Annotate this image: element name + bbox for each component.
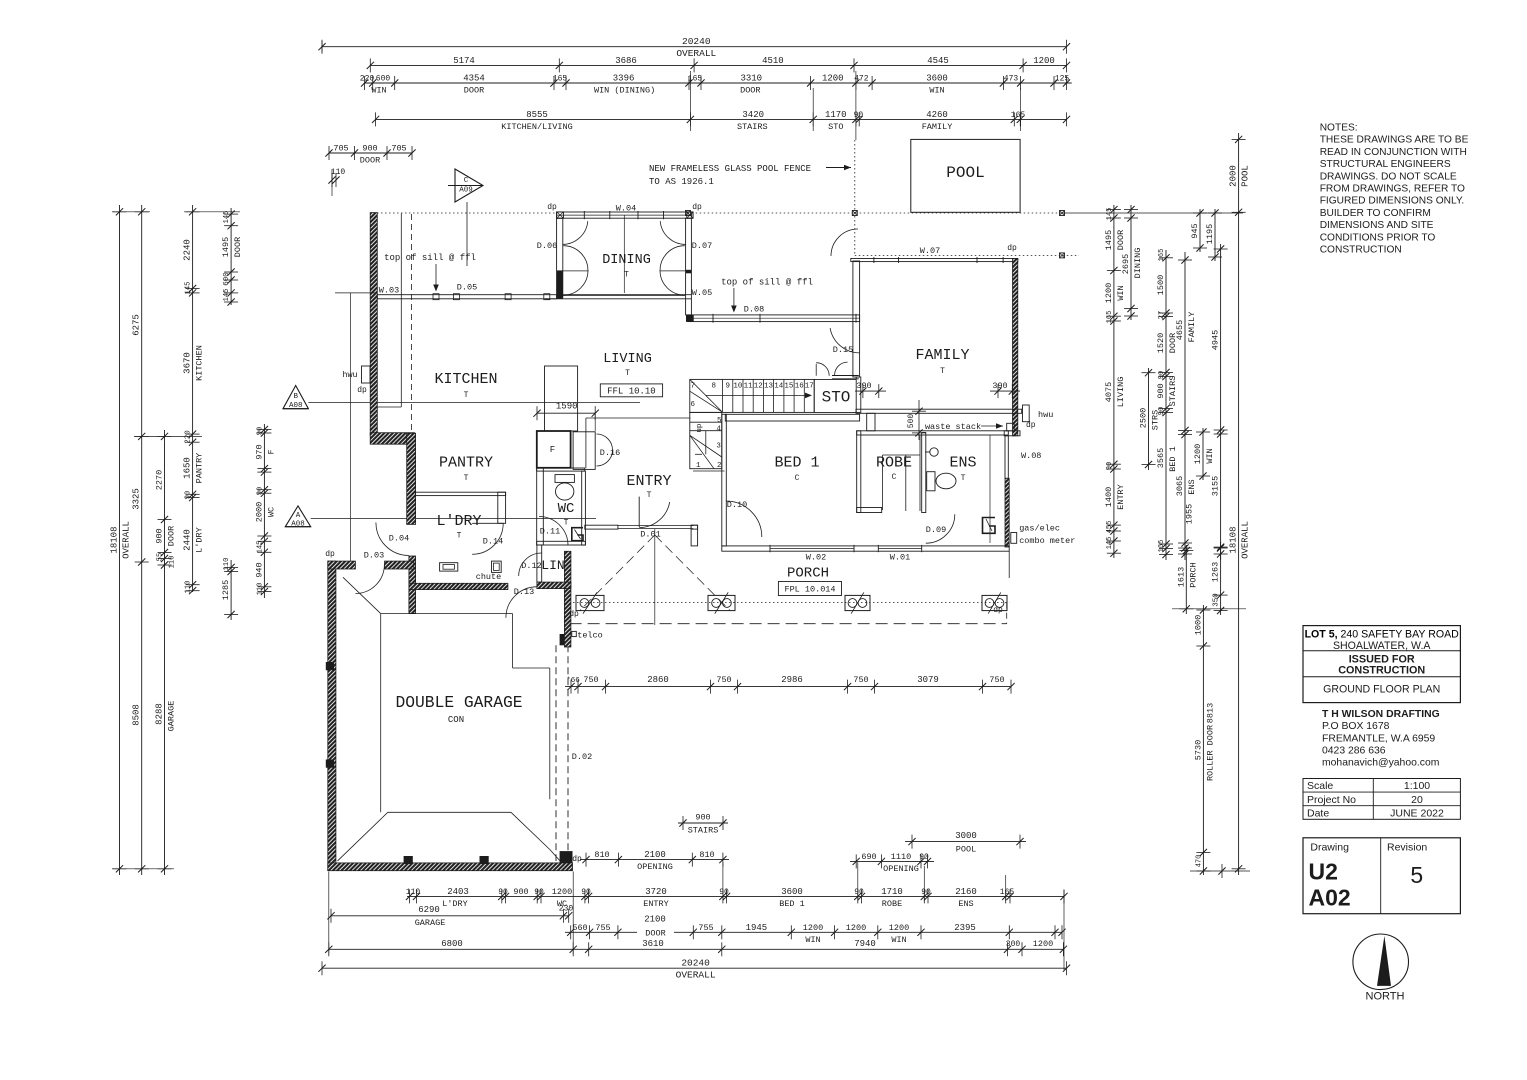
svg-text:C: C	[464, 177, 469, 185]
kitchen bench return	[377, 406, 401, 408]
svg-text:2695: 2695	[1121, 254, 1131, 274]
svg-text:90: 90	[185, 491, 193, 499]
dining corner post top-left	[557, 212, 564, 218]
svg-text:D.14: D.14	[483, 537, 503, 547]
svg-text:1170: 1170	[825, 110, 847, 120]
svg-text:2403: 2403	[447, 887, 469, 897]
svg-text:3065: 3065	[1175, 476, 1185, 496]
svg-text:1200: 1200	[822, 74, 844, 84]
svg-text:900: 900	[155, 528, 165, 543]
svg-text:4: 4	[716, 425, 721, 433]
svg-text:W.05: W.05	[692, 288, 712, 298]
svg-text:3670: 3670	[183, 352, 193, 374]
svg-text:90: 90	[498, 888, 508, 897]
telco box and label	[572, 631, 603, 641]
svg-text:PANTRY: PANTRY	[439, 455, 493, 472]
dim 390 right of family	[990, 381, 1020, 398]
kitchen bench line vertical	[400, 214, 402, 408]
left chains datum stubs	[112, 211, 150, 213]
svg-text:1590: 1590	[556, 402, 578, 412]
svg-text:WC: WC	[558, 501, 575, 517]
svg-text:5: 5	[717, 417, 722, 425]
ens fixtures: shower rose	[925, 448, 938, 456]
ldry washing trough	[440, 563, 458, 571]
svg-text:STAIRS: STAIRS	[1168, 376, 1178, 407]
svg-text:350: 350	[1213, 593, 1221, 607]
porch post 2	[708, 595, 735, 610]
svg-text:8: 8	[712, 383, 717, 391]
svg-text:D.02: D.02	[572, 752, 592, 762]
svg-text:0423 286 636: 0423 286 636	[1322, 745, 1386, 756]
door D.09 arc	[926, 514, 955, 543]
door D.07 leaf line	[660, 270, 686, 272]
svg-text:SHOALWATER, W.A: SHOALWATER, W.A	[1333, 640, 1431, 652]
wall family south / bed north y=409	[856, 409, 1022, 413]
svg-text:90: 90	[1158, 371, 1166, 379]
svg-text:T: T	[464, 474, 469, 483]
svg-text:1955: 1955	[1185, 504, 1195, 524]
svg-text:WIN: WIN	[891, 935, 906, 945]
porch post 3	[845, 595, 870, 610]
svg-text:220: 220	[185, 430, 193, 444]
door D.06 arc upper quarter	[562, 221, 587, 244]
svg-text:W.03: W.03	[379, 286, 399, 296]
left chain door 1495	[221, 208, 243, 306]
svg-text:LOT 5, 240 SAFETY BAY ROAD: LOT 5, 240 SAFETY BAY ROAD	[1305, 629, 1460, 641]
svg-text:DOOR: DOOR	[645, 928, 665, 938]
svg-text:1195: 1195	[1205, 224, 1215, 244]
roofline square node x=1062	[1060, 211, 1065, 216]
svg-text:1650: 1650	[183, 457, 193, 479]
svg-text:D.13: D.13	[514, 587, 534, 597]
svg-text:F: F	[267, 449, 276, 454]
svg-text:CONDITIONS PRIOR TO: CONDITIONS PRIOR TO	[1320, 232, 1436, 243]
svg-text:POOL: POOL	[946, 164, 984, 182]
svg-text:90: 90	[854, 888, 864, 897]
svg-text:390: 390	[992, 381, 1007, 391]
garage hip diagonal bottom-right	[511, 812, 550, 849]
label waste stack with arrow	[925, 422, 1003, 432]
svg-text:1: 1	[696, 462, 701, 470]
svg-text:W.01: W.01	[890, 553, 910, 563]
door D.01 leaf	[638, 497, 640, 527]
svg-text:FAMILY: FAMILY	[1187, 312, 1197, 343]
dim opening 690/1110/90	[850, 852, 934, 874]
svg-text:3420: 3420	[742, 110, 764, 120]
svg-text:2100: 2100	[644, 915, 666, 925]
wall pantry left thick upper	[407, 433, 416, 524]
svg-text:ENTRY: ENTRY	[1116, 484, 1126, 510]
svg-text:T H WILSON DRAFTING: T H WILSON DRAFTING	[1322, 709, 1440, 720]
svg-text:GARAGE: GARAGE	[167, 701, 177, 732]
wall robe left	[857, 431, 861, 513]
right chain R1	[1104, 205, 1126, 558]
wall ens right lower thick	[1005, 478, 1009, 547]
door D.14 leaf	[472, 522, 503, 524]
dim 390 left of sto	[855, 381, 886, 398]
svg-text:FAMILY: FAMILY	[922, 122, 953, 132]
pool rectangle	[911, 139, 1020, 212]
svg-text:3155: 3155	[1211, 476, 1221, 496]
svg-text:4260: 4260	[926, 110, 948, 120]
ens shower screen G	[983, 518, 996, 534]
svg-text:18108: 18108	[110, 526, 120, 553]
window W.04 glazing line	[557, 214, 692, 216]
window W.08 ens right	[1005, 436, 1008, 479]
svg-text:2160: 2160	[955, 887, 977, 897]
svg-text:U2: U2	[1309, 859, 1338, 885]
svg-text:NEW FRAMELESS GLASS POOL FENC: NEW FRAMELESS GLASS POOL FENCE	[649, 164, 811, 174]
svg-text:Project No: Project No	[1307, 794, 1356, 806]
svg-text:1:100: 1:100	[1404, 780, 1430, 792]
svg-text:CONSTRUCTION: CONSTRUCTION	[1320, 245, 1402, 256]
svg-text:P.O BOX 1678: P.O BOX 1678	[1322, 721, 1390, 732]
svg-text:110: 110	[169, 556, 177, 569]
svg-text:1520: 1520	[1156, 333, 1166, 353]
left chain 1285	[221, 558, 238, 620]
door D.11 arc	[539, 517, 568, 546]
wall W.03/D.05 kitchen north	[377, 295, 556, 299]
label top of sill kitchen	[384, 253, 476, 292]
svg-text:B: B	[293, 393, 298, 401]
wall robe/ens divider	[922, 433, 926, 513]
svg-text:2: 2	[717, 462, 722, 470]
wall robe bottom	[857, 508, 882, 513]
svg-text:90: 90	[256, 427, 264, 435]
svg-text:THESE DRAWINGS ARE TO BE: THESE DRAWINGS ARE TO BE	[1320, 135, 1469, 146]
svg-text:W.04: W.04	[616, 204, 636, 214]
roofline dotted y=213 left part	[377, 212, 557, 214]
svg-text:KITCHEN: KITCHEN	[434, 371, 497, 388]
svg-text:2395: 2395	[954, 923, 976, 933]
svg-text:NORTH: NORTH	[1366, 991, 1405, 1003]
svg-text:dp: dp	[1026, 421, 1036, 430]
pantry cabinet right of fridge	[573, 432, 595, 470]
pool fence dashed vertical x=855	[854, 140, 856, 255]
svg-text:A09: A09	[459, 187, 473, 195]
svg-text:8288: 8288	[155, 703, 165, 725]
dim chain garage 6290	[327, 905, 572, 928]
wall kitchen exterior left thick	[370, 213, 377, 436]
svg-text:telco: telco	[577, 631, 603, 641]
garage door corner block top	[560, 634, 571, 645]
wall dining left	[557, 218, 563, 297]
wall ldry top	[416, 492, 506, 495]
sto door arc left	[816, 363, 829, 376]
svg-text:1200: 1200	[803, 923, 823, 933]
wall entry return to porch	[691, 525, 698, 546]
dimension chain garage door 705/900/705	[325, 144, 415, 166]
garage bottom wall pier 2	[480, 856, 489, 864]
door D.10 arc	[726, 501, 762, 537]
svg-text:750: 750	[853, 675, 868, 685]
room label LIVING	[603, 352, 652, 378]
svg-text:90: 90	[581, 888, 591, 897]
window D.08 glazing line	[688, 317, 860, 319]
svg-text:2100: 2100	[644, 850, 666, 860]
door D.07 arc upper quarter	[660, 221, 685, 244]
svg-text:OPENING: OPENING	[883, 864, 919, 874]
svg-text:LIN: LIN	[541, 558, 564, 573]
svg-text:20: 20	[1411, 794, 1423, 806]
svg-text:1200: 1200	[552, 887, 572, 897]
svg-text:1945: 1945	[746, 923, 768, 933]
svg-text:3396: 3396	[613, 74, 635, 84]
svg-text:600: 600	[223, 272, 231, 286]
family wall piece right of sto	[856, 377, 861, 412]
dimension chain top row2	[367, 56, 1070, 73]
wall sto/stair divider	[813, 379, 815, 412]
svg-text:POOL: POOL	[956, 845, 976, 855]
extension line x=813	[812, 88, 814, 131]
svg-text:2860: 2860	[647, 675, 669, 685]
dining left wall post filled	[557, 270, 563, 298]
wall bed1 left	[722, 414, 727, 546]
svg-text:Drawing: Drawing	[1310, 842, 1349, 854]
svg-text:BUILDER TO CONFIRM: BUILDER TO CONFIRM	[1320, 208, 1431, 219]
north arrow	[1353, 934, 1409, 1003]
svg-text:145: 145	[1106, 208, 1114, 221]
svg-text:5174: 5174	[453, 56, 475, 66]
right chain 4945/3155	[1211, 244, 1228, 560]
svg-text:top of sill @ ffl: top of sill @ ffl	[384, 253, 476, 263]
svg-text:3000: 3000	[955, 831, 977, 841]
left chain 2270/900door/8288	[155, 430, 177, 875]
window W.04 mullions	[583, 211, 585, 219]
extension line x=350 left chains to garage	[350, 293, 352, 561]
svg-text:D.11: D.11	[540, 527, 560, 537]
wall D.08 family south-west	[688, 315, 860, 322]
svg-text:8508: 8508	[132, 704, 142, 726]
svg-text:3600: 3600	[926, 74, 948, 84]
window W.07 mullions	[873, 257, 875, 263]
svg-text:T: T	[464, 391, 469, 400]
svg-text:3565: 3565	[1156, 448, 1166, 468]
wall family bottom cap	[1004, 431, 1020, 436]
deck square node x=1062 y=255	[1060, 253, 1065, 258]
svg-text:A: A	[296, 512, 301, 520]
svg-text:D.10: D.10	[727, 500, 747, 510]
svg-text:D.09: D.09	[926, 525, 946, 535]
svg-text:110: 110	[185, 581, 193, 594]
svg-text:3079: 3079	[917, 675, 939, 685]
kitchen island bench	[545, 366, 578, 431]
svg-text:Scale: Scale	[1307, 780, 1333, 792]
svg-text:WIN: WIN	[805, 935, 820, 945]
wall LIN bottom thick	[537, 582, 571, 589]
robe shelf lines	[883, 435, 921, 511]
right chain R2 dining	[1121, 205, 1143, 320]
svg-text:1500: 1500	[1156, 275, 1166, 295]
svg-text:DINING: DINING	[602, 253, 651, 268]
svg-text:6290: 6290	[418, 905, 440, 915]
door D.01 arc	[639, 502, 670, 528]
svg-text:D.03: D.03	[364, 551, 384, 561]
svg-text:14: 14	[774, 383, 784, 391]
svg-text:16: 16	[795, 383, 805, 391]
svg-text:90: 90	[854, 111, 864, 120]
svg-text:8813: 8813	[1205, 703, 1215, 723]
svg-text:ROBE: ROBE	[882, 899, 902, 909]
extension line from top chains to building at x=690	[689, 71, 691, 131]
svg-text:165: 165	[1158, 249, 1166, 262]
svg-text:KITCHEN: KITCHEN	[195, 345, 205, 381]
svg-text:DOOR: DOOR	[233, 237, 243, 257]
svg-text:T: T	[457, 532, 462, 541]
porch dotted footing line	[573, 602, 1009, 604]
svg-text:D.08: D.08	[744, 305, 764, 315]
svg-text:L'DRY: L'DRY	[436, 513, 481, 530]
svg-text:FPL 10.014: FPL 10.014	[784, 585, 835, 595]
svg-text:1613: 1613	[1176, 567, 1186, 587]
svg-text:WC: WC	[266, 507, 276, 517]
svg-text:600: 600	[376, 75, 391, 84]
window D.08 mullions	[712, 314, 714, 323]
svg-text:1200: 1200	[1033, 939, 1053, 949]
title block drawing/revision	[1303, 838, 1460, 914]
svg-text:DIMENSIONS AND SITE: DIMENSIONS AND SITE	[1320, 220, 1434, 231]
porch post 4	[982, 595, 1007, 610]
window W.03 glazing ticks	[433, 294, 439, 300]
svg-text:L'DRY: L'DRY	[195, 527, 205, 553]
svg-text:combo meter: combo meter	[1019, 536, 1075, 546]
svg-text:D.15: D.15	[833, 345, 853, 355]
wall garage bottom thick	[328, 863, 573, 871]
wall garage top-right segment	[385, 561, 414, 569]
room label PANTRY	[439, 455, 493, 484]
wall wc bottom	[537, 541, 586, 545]
svg-text:T: T	[624, 271, 629, 280]
svg-text:1285: 1285	[221, 580, 231, 600]
svg-text:455: 455	[1106, 521, 1114, 534]
svg-text:6: 6	[690, 401, 695, 409]
svg-text:dp: dp	[357, 386, 367, 395]
svg-text:hwu: hwu	[342, 370, 357, 380]
svg-text:STAIRS: STAIRS	[688, 826, 719, 836]
svg-text:OVERALL: OVERALL	[122, 521, 132, 559]
svg-text:1000: 1000	[1193, 615, 1203, 635]
wall dining right	[686, 218, 692, 315]
svg-text:D.07: D.07	[692, 241, 712, 251]
svg-text:GROUND FLOOR PLAN: GROUND FLOOR PLAN	[1323, 684, 1440, 696]
garage door corner block bottom	[560, 851, 573, 863]
right chain porch 1613	[1176, 545, 1198, 614]
section marker A A08 triangle	[285, 506, 596, 529]
stairs winder diagonals upper-left	[690, 379, 722, 411]
svg-text:90: 90	[1158, 407, 1166, 415]
svg-text:7: 7	[690, 383, 695, 391]
door D.06 arc lower half-circle	[563, 246, 588, 295]
svg-text:900: 900	[513, 887, 528, 897]
dim chain doors/windows bottom	[565, 923, 1066, 945]
porch dashed edge line	[570, 623, 1007, 625]
dimension chain top overall 20240	[318, 36, 1070, 59]
svg-text:810: 810	[699, 850, 714, 860]
svg-text:OVERALL: OVERALL	[676, 970, 716, 981]
svg-text:10: 10	[733, 383, 743, 391]
right chain R4	[1156, 249, 1178, 560]
svg-text:2500: 2500	[1139, 408, 1149, 428]
sto door arc right	[835, 362, 848, 375]
section marker B A08 triangle	[283, 386, 640, 411]
wc toilet	[555, 475, 574, 501]
sto top edge line	[814, 378, 856, 380]
svg-text:90: 90	[719, 888, 729, 897]
svg-text:DOOR: DOOR	[360, 156, 380, 166]
porch right edge line	[1008, 551, 1010, 578]
room label FAMILY	[915, 347, 969, 376]
svg-text:110: 110	[331, 168, 346, 177]
right chain 1263/350	[1211, 542, 1228, 615]
svg-text:WIN: WIN	[371, 86, 386, 96]
svg-text:dp: dp	[692, 203, 702, 212]
svg-text:3610: 3610	[642, 939, 664, 949]
wall family left vertical	[853, 261, 860, 377]
svg-text:8555: 8555	[526, 110, 548, 120]
dimension chain top row4 rooms	[372, 110, 1070, 132]
left chain rooms	[183, 205, 205, 594]
wall garage top-left segment	[328, 561, 356, 569]
svg-text:300: 300	[1006, 940, 1021, 949]
extension line x=322 left overall	[321, 41, 323, 52]
svg-text:FREMANTLE, W.A 6959: FREMANTLE, W.A 6959	[1322, 733, 1435, 744]
garage door dashed jamb line left	[555, 645, 557, 861]
svg-text:PANTRY: PANTRY	[195, 453, 205, 484]
roofline dotted y=213 right part	[692, 212, 1062, 214]
svg-text:ENTRY: ENTRY	[643, 899, 669, 909]
roofline square node x=688	[686, 211, 691, 216]
svg-text:LIVING: LIVING	[1116, 377, 1126, 408]
wall LIN left thin	[537, 545, 542, 582]
room label ROBE	[876, 455, 912, 483]
svg-text:WIN: WIN	[1116, 285, 1126, 300]
dining right wall post filled	[686, 315, 694, 322]
room label ENTRY	[626, 473, 671, 500]
wall bed1 top	[725, 414, 859, 421]
svg-text:D.16: D.16	[600, 448, 620, 458]
svg-text:900: 900	[1156, 383, 1166, 398]
ens vanity line	[989, 435, 991, 543]
garage interior outline	[381, 614, 550, 813]
svg-text:705: 705	[391, 144, 406, 154]
svg-text:3310: 3310	[740, 74, 762, 84]
svg-text:4655: 4655	[1175, 320, 1185, 340]
svg-text:T: T	[564, 519, 569, 528]
svg-text:4945: 4945	[1211, 330, 1221, 350]
svg-text:DRAWINGS. DO NOT SCALE: DRAWINGS. DO NOT SCALE	[1320, 171, 1457, 182]
svg-text:POOL: POOL	[1241, 165, 1251, 187]
pool fence square node x=855 y=213	[852, 211, 857, 216]
svg-text:ROBE: ROBE	[876, 455, 912, 472]
svg-text:755: 755	[698, 923, 713, 933]
svg-text:145: 145	[1106, 537, 1114, 550]
svg-text:CON: CON	[448, 715, 464, 725]
label gas/elec combo meter	[1011, 524, 1076, 547]
svg-text:A08: A08	[289, 402, 303, 410]
extension line roof to right chains	[1062, 212, 1243, 214]
svg-text:chute: chute	[476, 572, 502, 582]
wall kitchen step bottom thick	[370, 433, 415, 445]
svg-text:4545: 4545	[927, 56, 949, 66]
svg-text:750: 750	[583, 675, 598, 685]
svg-text:TO AS 1926.1: TO AS 1926.1	[649, 177, 714, 187]
svg-text:220: 220	[360, 75, 375, 84]
ens toilet	[927, 472, 956, 491]
svg-text:JUNE 2022: JUNE 2022	[1390, 807, 1444, 819]
svg-text:D.12: D.12	[521, 561, 541, 571]
svg-text:2000: 2000	[1229, 165, 1239, 187]
right chain R3 strs	[1139, 368, 1161, 470]
